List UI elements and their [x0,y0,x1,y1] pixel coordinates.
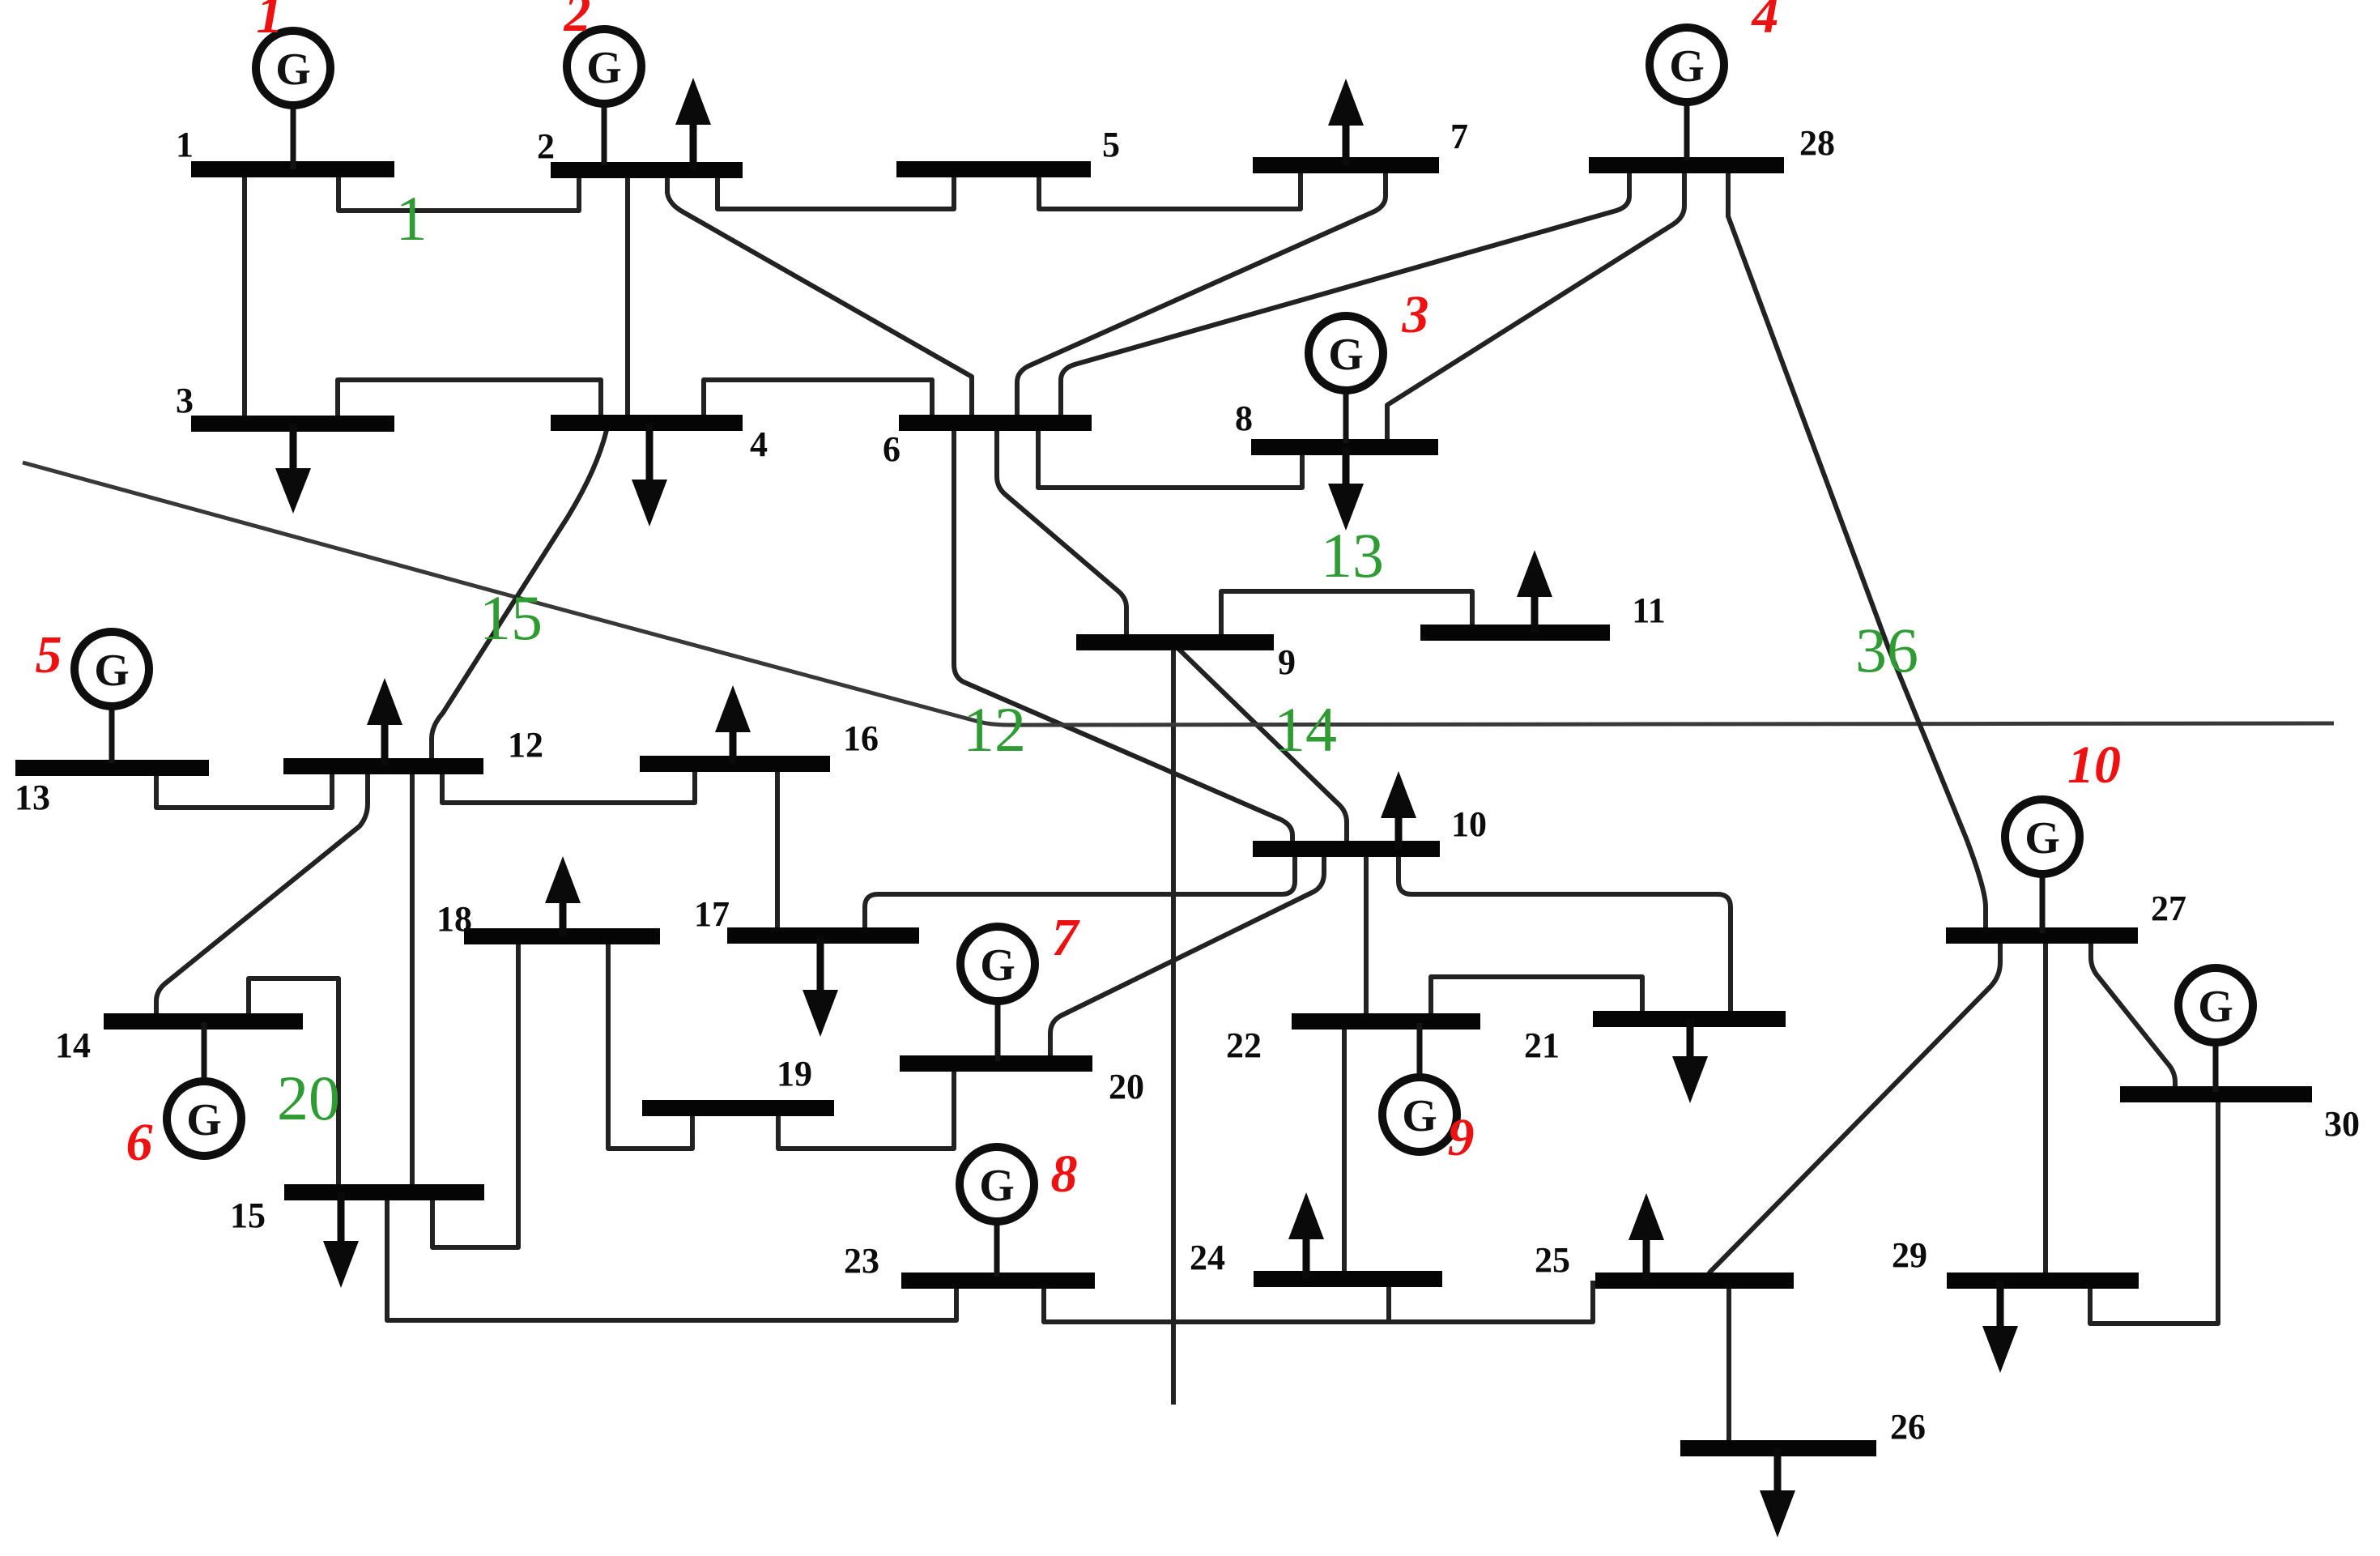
wire line 6-8 [1038,423,1302,488]
bus 26 [1680,1440,1876,1456]
svg-text:5: 5 [1102,125,1120,164]
wire line 6-10 [954,423,1292,849]
wire line 9-11 [1221,591,1472,642]
svg-text:22: 22 [1226,1025,1262,1065]
wire line 14-15 [249,978,338,1192]
load arrow bus 8 [1328,447,1364,531]
wire line 9-24 vertical [1171,642,1176,1405]
wire line 1-3 [242,169,247,424]
wire line 10-17 [865,849,1295,936]
svg-text:11: 11 [1632,590,1666,630]
wire line 2-6 [667,170,972,423]
svg-text:10: 10 [1451,804,1487,844]
load arrow bus 3 [275,424,311,514]
svg-text:13: 13 [15,778,50,817]
svg-text:2: 2 [537,126,555,166]
svg-text:23: 23 [844,1241,879,1281]
generator G5 bus 13 [75,632,149,763]
svg-text:G: G [94,646,130,696]
wire line 12-13 [156,766,332,808]
wire line 12-14 long diagonal-horizontal [23,463,2334,725]
wire line 36 bus28-27 [1728,165,1986,936]
bus 30 [2120,1086,2312,1102]
wire line 4-6 [704,380,932,423]
bus 8 [1251,439,1438,455]
svg-text:6: 6 [883,429,900,469]
svg-text:12: 12 [508,725,543,765]
load arrow bus 24 [1288,1192,1324,1279]
wire line 22-24 [1342,1021,1347,1279]
bus 4 [551,415,743,431]
svg-text:15: 15 [479,582,543,653]
generator bus 30 [2178,968,2253,1092]
svg-text:9: 9 [1448,1108,1475,1167]
wire line 25-27 [1706,936,2000,1281]
bus 20 [900,1055,1092,1072]
wire line 8-28 [1387,165,1684,447]
svg-text:7: 7 [1450,117,1468,156]
load arrow bus 17 [803,936,838,1037]
svg-text:21: 21 [1524,1025,1560,1065]
wire line 29-30 [2090,1094,2218,1324]
generator G1 bus 1 [256,31,330,169]
bus 21 [1593,1011,1786,1027]
bus 22 [1292,1013,1480,1030]
generator G3 bus 8 [1309,316,1383,443]
bus 18 [464,928,660,944]
load arrow bus 12 [367,678,402,766]
bus 10 [1253,841,1440,857]
bus 11 [1420,625,1610,641]
wire line 19-20 [778,1064,954,1149]
load arrow bus 2 [675,78,711,170]
generator G2 bus 2 [567,29,641,165]
load arrow bus 29 [1982,1281,2018,1373]
bus 17 [727,927,919,944]
wire line 15-18 [432,936,518,1247]
svg-text:28: 28 [1799,123,1835,163]
svg-text:17: 17 [694,894,730,934]
wire line 2-5 [717,169,954,209]
svg-text:36: 36 [1855,615,1918,685]
wire line 9-10 [1172,642,1347,849]
wire line 12-16 [442,764,695,803]
svg-text:9: 9 [1278,642,1296,682]
svg-text:14: 14 [55,1025,91,1065]
wire stub bus 24 to line 23-25 [1386,1279,1391,1322]
load arrow bus 21 [1672,1019,1708,1103]
load arrow bus 7 [1328,79,1364,165]
load arrow bus 18 [545,856,581,936]
load arrow bus 4 [632,423,667,526]
generator G7 bus 20 [960,927,1035,1061]
bus 13 [15,760,209,776]
svg-text:27: 27 [2151,889,2186,928]
svg-text:8: 8 [1235,399,1253,438]
wire line 27-29 [2043,936,2048,1281]
svg-text:1: 1 [176,125,194,164]
generator G4 bus 28 [1650,28,1724,160]
wire line 16-17 [775,764,780,936]
svg-text:G: G [1328,330,1364,380]
svg-text:24: 24 [1190,1238,1225,1277]
svg-text:6: 6 [126,1113,153,1172]
wire line 25-26 [1726,1281,1731,1448]
svg-text:G: G [1402,1091,1437,1141]
svg-text:G: G [979,1161,1015,1211]
generator G9 bus 22 [1382,1023,1457,1152]
svg-text:14: 14 [1274,694,1337,765]
svg-text:G: G [2024,813,2060,863]
svg-text:3: 3 [1402,285,1429,344]
wire line 12-14 [156,766,368,1021]
svg-text:8: 8 [1051,1145,1078,1204]
bus 3 [191,416,394,432]
svg-text:19: 19 [777,1054,812,1093]
bus 14 [104,1013,303,1030]
svg-text:30: 30 [2324,1104,2360,1144]
wire line 23-24-25 [1044,1281,1593,1322]
bus 19 [642,1100,834,1116]
wire line 5-7 [1039,165,1301,209]
wire line 6-9 [997,423,1126,642]
generator G10 bus 27 [2005,799,2080,933]
svg-text:1: 1 [257,0,283,45]
svg-text:G: G [1669,41,1705,92]
bus 1 [191,161,394,177]
load arrow bus 25 [1629,1193,1664,1281]
bus 15 [284,1184,484,1200]
bus 27 [1946,927,2138,944]
wire line 21-22 [1431,977,1642,1021]
svg-text:1: 1 [396,183,428,254]
bus 25 [1595,1273,1794,1289]
wire line 3-4 [338,380,601,424]
wire line 18-19 [608,936,692,1149]
svg-text:16: 16 [843,718,879,758]
bus 12 [283,758,483,774]
wire line 6-7 [1017,165,1386,423]
svg-text:G: G [275,45,311,95]
svg-text:G: G [586,43,622,93]
bus 29 [1947,1273,2139,1289]
wire line 1-2 [338,169,579,211]
bus 2 [551,162,743,178]
bus 28 [1589,157,1784,173]
bus 5 [896,161,1091,177]
svg-text:15: 15 [230,1196,266,1235]
svg-text:26: 26 [1890,1407,1926,1447]
svg-text:20: 20 [1109,1067,1144,1106]
wire line 27-30 [2091,936,2175,1094]
load arrow bus 11 [1517,550,1552,633]
wire line 10-22 [1364,849,1369,1021]
wire line 12-15 [410,766,415,1192]
svg-text:13: 13 [1321,520,1384,590]
svg-text:12: 12 [963,694,1026,765]
wire line 4-12 [432,430,607,766]
svg-text:25: 25 [1535,1240,1570,1280]
wire line 10-20 [1050,849,1324,1064]
svg-text:4: 4 [1751,0,1779,45]
svg-text:5: 5 [36,625,62,684]
svg-text:20: 20 [277,1063,340,1133]
wire line 15-23 [387,1192,956,1320]
svg-text:2: 2 [564,0,591,43]
svg-text:7: 7 [1052,908,1081,967]
load arrow bus 26 [1760,1448,1795,1537]
bus 7 [1253,157,1439,173]
svg-text:18: 18 [436,899,472,939]
bus 6 [899,415,1092,431]
load arrow bus 10 [1381,771,1416,849]
wire line 6-28 [1061,165,1629,423]
bus 9 [1076,634,1274,650]
bus 16 [640,756,830,772]
bus 24 [1254,1271,1442,1287]
svg-text:29: 29 [1892,1235,1927,1275]
load arrow bus 15 [323,1192,359,1288]
svg-text:G: G [980,940,1015,991]
svg-text:10: 10 [2067,735,2121,795]
wire line 2-4 [625,170,630,423]
load arrow bus 16 [715,685,751,764]
generator G8 bus 23 [960,1147,1034,1277]
wire line 10-21 [1399,849,1731,1019]
svg-text:G: G [186,1095,222,1145]
svg-text:4: 4 [750,424,768,464]
bus 23 [901,1273,1095,1289]
generator G6 bus 14 [167,1022,241,1156]
svg-text:3: 3 [176,381,194,420]
svg-text:G: G [2198,982,2233,1032]
